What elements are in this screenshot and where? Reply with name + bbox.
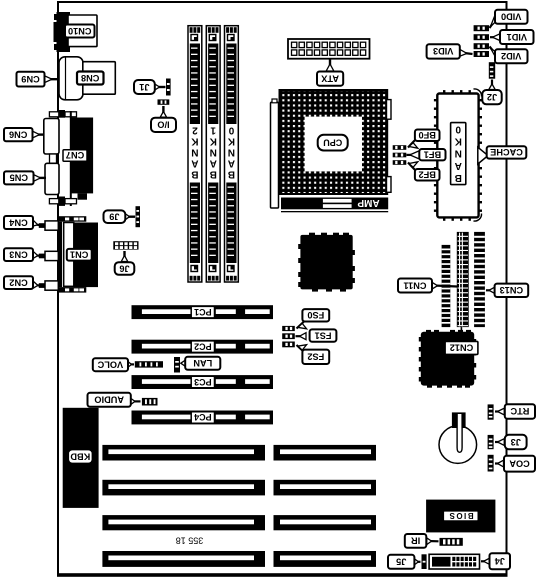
svg-text:I/O: I/O xyxy=(157,120,169,130)
connector CN7 shell step xyxy=(50,154,57,163)
svg-text:PC4: PC4 xyxy=(194,412,212,422)
PCI slot PC1 xyxy=(132,305,274,319)
DIMM slot BANK0 xyxy=(225,26,239,282)
svg-text:PC2: PC2 xyxy=(194,341,212,351)
jumper VID0 pins xyxy=(474,25,489,31)
svg-text:CN8: CN8 xyxy=(81,73,99,83)
jumper VID1 pins xyxy=(474,34,489,40)
ISA slot ISA3 xyxy=(102,515,376,530)
label ATX xyxy=(317,72,343,86)
wire CN5 pointer xyxy=(34,175,47,182)
PCI slot PC2 xyxy=(132,340,274,354)
jumper FS1 pins xyxy=(282,333,295,339)
svg-text:CN7: CN7 xyxy=(66,150,84,160)
svg-text:1: 1 xyxy=(210,124,216,135)
slot bar CN13 xyxy=(474,232,485,327)
label CN11 xyxy=(398,279,432,293)
label RTC xyxy=(505,404,535,419)
svg-text:K: K xyxy=(209,135,217,146)
svg-text:BF2: BF2 xyxy=(419,170,436,180)
label CN8 xyxy=(77,72,104,85)
svg-text:B: B xyxy=(228,168,235,179)
svg-text:J9: J9 xyxy=(109,212,119,222)
wire VID0 pointer xyxy=(490,14,497,28)
jack CN3 xyxy=(39,251,59,260)
label CN3 xyxy=(4,248,33,261)
DIMM slot BANK2 xyxy=(188,26,202,282)
wire CACHE pointer xyxy=(478,147,488,164)
svg-text:CN3: CN3 xyxy=(9,249,27,259)
wire FS0 pointer xyxy=(297,322,307,329)
svg-text:PC1: PC1 xyxy=(194,307,212,317)
svg-text:CN6: CN6 xyxy=(9,130,27,140)
connector ATX xyxy=(288,39,370,59)
svg-text:A: A xyxy=(210,157,217,168)
svg-text:VID2: VID2 xyxy=(501,51,521,61)
ISA slot ISA2 xyxy=(102,480,376,496)
battery xyxy=(439,412,477,463)
svg-text:J3: J3 xyxy=(511,437,521,447)
label BF1 xyxy=(419,149,445,160)
svg-text:K: K xyxy=(191,135,199,146)
wire LAN pointer xyxy=(181,360,186,367)
label CN6 xyxy=(4,128,33,141)
wire VID3 pointer xyxy=(460,49,473,56)
svg-text:K: K xyxy=(454,136,462,147)
svg-text:B: B xyxy=(191,168,198,179)
svg-text:N: N xyxy=(191,146,198,157)
CN7 mounting tabs top xyxy=(49,110,76,118)
wire FS2 pointer xyxy=(297,345,307,352)
part number 35518 xyxy=(176,535,204,545)
svg-text:KBD: KBD xyxy=(70,451,90,461)
jumper FS2 pins xyxy=(282,342,295,348)
jumper BF1 pins xyxy=(393,153,407,158)
label VID3 xyxy=(427,44,460,58)
wire CN9 pointer xyxy=(45,76,59,83)
label J1 xyxy=(134,80,155,94)
wire CN4 pointer xyxy=(32,220,40,227)
connector CN8 body xyxy=(83,62,116,94)
label CACHE xyxy=(487,146,527,158)
label CPU xyxy=(318,135,348,151)
header I/O xyxy=(158,99,170,104)
svg-text:CPU: CPU xyxy=(323,138,342,148)
svg-text:J5: J5 xyxy=(396,557,406,567)
wire I/O pointer xyxy=(160,106,166,117)
ISA slot ISA4 xyxy=(102,551,376,567)
wire FS1 pointer xyxy=(296,333,307,340)
wire J2 pointer xyxy=(489,80,495,90)
CN7 mounting tabs bottom xyxy=(49,197,76,206)
connector CN1 body xyxy=(74,223,98,288)
jack CN2 xyxy=(39,281,59,290)
label BIOS xyxy=(443,511,478,521)
svg-text:J1: J1 xyxy=(139,82,149,92)
jumper LAN pins xyxy=(174,357,180,373)
label BF0 xyxy=(415,130,440,142)
wire J6 pointer xyxy=(121,251,127,262)
wire J5 pointer xyxy=(414,559,421,566)
connector J4 body xyxy=(429,554,479,569)
CPU socket AMP xyxy=(279,89,389,195)
svg-text:K: K xyxy=(227,135,235,146)
label CN4 xyxy=(4,216,33,229)
svg-text:CN9: CN9 xyxy=(21,74,39,84)
svg-text:ATX: ATX xyxy=(320,73,339,83)
label I/O xyxy=(151,118,176,132)
svg-text:FS1: FS1 xyxy=(315,330,332,340)
svg-text:CN10: CN10 xyxy=(68,26,92,36)
label LAN xyxy=(185,357,220,370)
svg-text:CN12: CN12 xyxy=(450,343,474,353)
wire ATX pointer xyxy=(326,59,334,71)
label CN9 xyxy=(17,72,45,87)
CPU socket tab lower-right xyxy=(387,177,392,193)
label IR xyxy=(405,534,427,548)
label CN1 xyxy=(67,249,92,261)
svg-text:BF0: BF0 xyxy=(419,130,436,140)
connector CN7 bracket line xyxy=(70,111,72,206)
wire IR pointer xyxy=(427,538,439,545)
wire BF0 pointer xyxy=(408,139,418,148)
svg-text:VOLC: VOLC xyxy=(97,360,123,370)
label CN12 xyxy=(445,341,478,354)
connector IR pins xyxy=(440,538,463,546)
PCI slot PC3 xyxy=(132,375,274,389)
label J9 xyxy=(104,210,126,223)
label CN5 xyxy=(4,171,34,184)
header J1 xyxy=(166,79,171,96)
connector CN1 bracket strip xyxy=(58,222,62,287)
wire BF2 pointer xyxy=(408,162,418,171)
svg-text:CN13: CN13 xyxy=(500,285,524,295)
CPU socket tab upper-right xyxy=(387,100,392,120)
svg-text:AMP: AMP xyxy=(357,197,380,208)
svg-text:IR: IR xyxy=(411,536,421,546)
connector CN7 D-sub shell lower xyxy=(45,163,59,194)
connector CN1 bottom bar xyxy=(58,287,86,293)
label FS1 xyxy=(310,329,337,341)
connector CN7 body xyxy=(71,118,93,200)
svg-text:FS0: FS0 xyxy=(307,310,324,320)
connector CN10 bracket xyxy=(54,12,71,52)
wire CN13 pointer xyxy=(486,287,495,294)
jumper VID2 pins xyxy=(474,43,489,49)
svg-text:CACHE: CACHE xyxy=(490,147,523,157)
wire J4 pointer xyxy=(481,558,490,565)
wire RTC pointer xyxy=(495,408,504,415)
jumper BF0 pins xyxy=(393,145,407,150)
label VOLC xyxy=(93,358,128,371)
wire J3 pointer xyxy=(495,439,504,446)
label J6 xyxy=(115,262,135,275)
svg-text:CN2: CN2 xyxy=(9,277,27,287)
header J3 xyxy=(488,435,494,449)
slot bar left of CN11 xyxy=(442,245,451,327)
label CN13 xyxy=(495,284,529,297)
svg-text:VID0: VID0 xyxy=(501,12,521,22)
slot CN11 ladder xyxy=(457,232,469,341)
ISA slot ISA1 xyxy=(102,445,376,461)
svg-text:CN4: CN4 xyxy=(8,217,27,227)
header COA xyxy=(488,455,494,472)
connector CN8 DIN shell xyxy=(59,57,83,100)
svg-text:CN11: CN11 xyxy=(404,280,427,290)
svg-text:N: N xyxy=(228,146,235,157)
label VID2 xyxy=(495,49,528,63)
label KBD xyxy=(68,450,92,464)
svg-text:N: N xyxy=(210,146,217,157)
cache module xyxy=(434,89,482,221)
svg-text:BIOS: BIOS xyxy=(448,511,474,520)
connector CN1 top bar xyxy=(58,216,86,222)
svg-text:A: A xyxy=(455,160,462,171)
jumper VID3 pins xyxy=(474,51,489,57)
jumper AUDIO pins xyxy=(142,398,158,406)
svg-text:FS2: FS2 xyxy=(307,352,324,362)
label VID0 xyxy=(495,10,528,24)
header J2 xyxy=(489,62,495,78)
header J9 xyxy=(136,206,141,227)
jumper FS0 pins xyxy=(282,326,295,331)
header J5 pins xyxy=(422,554,427,569)
label CN2 xyxy=(4,276,33,289)
wire COA pointer xyxy=(495,460,504,467)
wire CN11 pointer xyxy=(432,282,457,289)
DIMM slot BANK1 xyxy=(206,26,220,282)
label J5 xyxy=(388,555,414,569)
wire BF1 pointer xyxy=(407,151,420,159)
wire CN6 pointer xyxy=(33,131,45,138)
jumper BF2 pins xyxy=(393,160,407,165)
label J3 xyxy=(505,435,527,450)
svg-text:CN5: CN5 xyxy=(10,173,28,183)
label COA xyxy=(504,456,535,472)
svg-text:VID3: VID3 xyxy=(433,46,453,56)
label AUDIO xyxy=(88,393,131,407)
svg-text:0: 0 xyxy=(455,124,461,135)
svg-text:A: A xyxy=(228,157,235,168)
wire VID1 pointer xyxy=(490,34,500,41)
chipset U1 xyxy=(298,233,355,292)
connector CN1 panel xyxy=(64,223,74,287)
svg-text:BF1: BF1 xyxy=(424,150,441,160)
jack CN4 xyxy=(39,221,59,230)
wire CN3 pointer xyxy=(33,251,40,258)
KBD controller block xyxy=(63,408,99,508)
svg-text:2: 2 xyxy=(192,124,198,135)
CPU socket lever xyxy=(271,99,279,208)
label FS0 xyxy=(302,309,329,321)
connector CN7 D-sub shell upper xyxy=(44,119,59,155)
svg-text:0: 0 xyxy=(228,124,234,135)
label J2 xyxy=(482,90,501,104)
wire VID2 pointer xyxy=(490,47,497,60)
header J6 xyxy=(113,241,138,249)
svg-text:AUDIO: AUDIO xyxy=(94,395,124,405)
svg-text:N: N xyxy=(455,148,462,159)
svg-text:CN1: CN1 xyxy=(70,250,88,260)
jumper VOLC pins xyxy=(135,361,163,367)
connector CN10 body xyxy=(68,15,97,47)
svg-text:A: A xyxy=(191,157,198,168)
AMP retention bar xyxy=(281,197,388,212)
svg-text:J2: J2 xyxy=(487,92,497,102)
svg-text:B: B xyxy=(455,172,462,183)
svg-text:VID1: VID1 xyxy=(507,32,527,42)
cache BANK0 strip xyxy=(451,123,466,185)
label FS2 xyxy=(302,350,329,364)
svg-text:355 18: 355 18 xyxy=(176,535,204,545)
svg-text:J6: J6 xyxy=(119,263,129,273)
svg-text:B: B xyxy=(210,168,217,179)
label CN7 xyxy=(63,150,87,162)
svg-text:COA: COA xyxy=(509,459,530,469)
header RTC xyxy=(488,404,494,419)
wire AUDIO pointer xyxy=(130,398,140,405)
label CN10 xyxy=(65,25,95,38)
svg-text:J4: J4 xyxy=(494,556,505,566)
wire VOLC pointer xyxy=(128,361,135,367)
BIOS chip xyxy=(426,500,495,533)
svg-text:RTC: RTC xyxy=(510,406,529,416)
svg-text:LAN: LAN xyxy=(193,358,212,368)
wire J9 pointer xyxy=(125,214,135,220)
PCI slot PC4 xyxy=(132,411,274,425)
chip CN12 xyxy=(419,330,476,388)
label J4 xyxy=(490,553,511,569)
label BF2 xyxy=(415,169,440,181)
label VID1 xyxy=(500,30,534,44)
svg-text:PC3: PC3 xyxy=(194,377,212,387)
wire J1 pointer xyxy=(155,84,166,90)
wire CN2 pointer xyxy=(33,281,40,288)
